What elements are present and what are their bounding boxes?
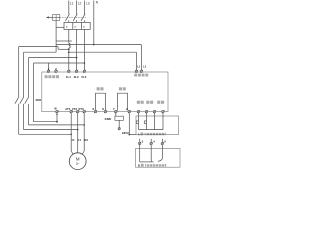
terminal control A (126, 107, 131, 113)
wire motor feed V (77, 113, 79, 153)
node N tee junction (93, 44, 95, 46)
wire control branch from L1 to control terminal left (69, 52, 137, 70)
svg-text:L2: L2 (78, 1, 82, 5)
node tap on L2 (76, 57, 78, 59)
node tap on L1 (68, 51, 70, 53)
terminal 4T2 (72, 107, 79, 113)
terminal 2 interlock (55, 67, 58, 73)
svg-text:3L2: 3L2 (74, 75, 79, 79)
node junction on 2T1 feed (70, 134, 72, 136)
label qidong (146, 101, 153, 104)
node dot at A wire end (129, 134, 131, 136)
wire L2 drop to terminal 3L2 (76, 29, 78, 70)
svg-text:L3: L3 (86, 1, 90, 5)
wire L1 drop to terminal 1L1 (68, 29, 70, 43)
switch QS blades left (15, 97, 42, 104)
button box A (136, 116, 179, 135)
node L3 supply line (84, 1, 89, 15)
button box B (136, 149, 181, 168)
wire bypass 3 from L2 (29, 58, 85, 125)
svg-text:U1: U1 (71, 138, 75, 142)
terminal control 7 (113, 107, 117, 113)
node junction on 4T2 feed (77, 129, 79, 131)
wire interlock from L3 to terminal 1 and switch (34, 63, 85, 122)
node L1 supply line (69, 1, 74, 15)
svg-text:6T3: 6T3 (78, 107, 84, 111)
wire bus in box B (140, 161, 154, 163)
terminal control power left (135, 66, 141, 73)
svg-text:W1: W1 (84, 138, 89, 142)
terminal 4 box B (150, 139, 155, 145)
node N neutral line (94, 0, 99, 44)
terminal 5 box B (161, 139, 166, 145)
breaker linkage dashed line (60, 17, 86, 19)
label tingche (137, 101, 144, 104)
svg-text:L1: L1 (70, 1, 74, 5)
terminal 3 box B (138, 139, 143, 145)
svg-text:KM1: KM1 (36, 98, 42, 102)
wire drop 3 in box B (139, 145, 141, 162)
svg-text:3~: 3~ (76, 162, 80, 166)
handle linkage wire down (56, 20, 72, 52)
wire terminal A to common bus (129, 113, 136, 135)
svg-text:230V: 230V (122, 131, 129, 135)
node dot on We stub (56, 114, 57, 115)
wire motor feed U (71, 113, 74, 156)
svg-text:KM0: KM0 (105, 117, 112, 121)
label tingzhi stop bridge (97, 87, 104, 90)
stop button NC in box A (136, 113, 138, 130)
wire L3 drop to terminal 5L3 (83, 29, 85, 70)
label qidong start bridge (119, 87, 126, 90)
node junction on 6T3 feed (83, 124, 85, 126)
terminal control 5 (93, 107, 97, 113)
node tap on L1 upper (68, 49, 70, 51)
bridge stop terminals (96, 93, 106, 110)
wire bypass 1 from handle link (19, 47, 71, 135)
svg-text:A: A (138, 132, 140, 136)
operating handle (46, 15, 60, 21)
wire motor feed W (81, 113, 84, 156)
terminal stop button (137, 110, 140, 113)
trip unit box (64, 22, 90, 29)
wire drop 4 in box B (150, 145, 152, 162)
svg-text:2T1: 2T1 (65, 107, 71, 111)
start button NO in box A (144, 113, 146, 130)
breaker QF pole blades (65, 14, 85, 23)
svg-text:V1: V1 (77, 138, 81, 142)
terminal We (54, 107, 58, 113)
svg-text:B: B (138, 164, 140, 168)
terminal 6T3 (78, 107, 85, 113)
label kongzhidianyuan (134, 74, 148, 77)
wire bypass 2 from L1 (24, 52, 78, 129)
svg-text:5L3: 5L3 (81, 75, 86, 79)
wire start2 drop in box A (154, 113, 156, 130)
wire N branch to control terminal right (56, 45, 141, 71)
terminal control 6 (102, 107, 107, 113)
terminal start button (145, 110, 148, 113)
terminal 1 interlock (47, 67, 50, 73)
terminal 5L3 (81, 70, 86, 79)
terminal control power right (140, 66, 147, 73)
wire We stub (56, 113, 58, 122)
terminal 1L1 (66, 70, 71, 79)
terminal 3L2 (74, 70, 79, 79)
label A xing liangdi control (138, 132, 166, 136)
node joint below terminal We (56, 121, 58, 123)
svg-text:1L1: 1L1 (66, 75, 71, 79)
wire bottom bus in box A (139, 129, 164, 131)
coil KM0 (105, 113, 129, 135)
motor M1 (69, 153, 86, 170)
terminal 2T1 (65, 107, 72, 113)
label B xing dandi control (138, 164, 166, 168)
starter enclosure box (42, 72, 168, 112)
terminal start2 (153, 110, 156, 113)
wire common drop in box A (162, 113, 164, 130)
label gonggong (157, 101, 164, 104)
label dianyuanliansuo (45, 75, 59, 78)
svg-text:4T2: 4T2 (72, 107, 78, 111)
node L2 supply line (77, 1, 82, 15)
svg-text:M: M (76, 156, 80, 161)
terminal common (162, 110, 165, 113)
wire drop 5 with blade in box B (158, 145, 163, 162)
bridge start terminals (118, 93, 128, 110)
node tap on L3 (84, 62, 86, 64)
